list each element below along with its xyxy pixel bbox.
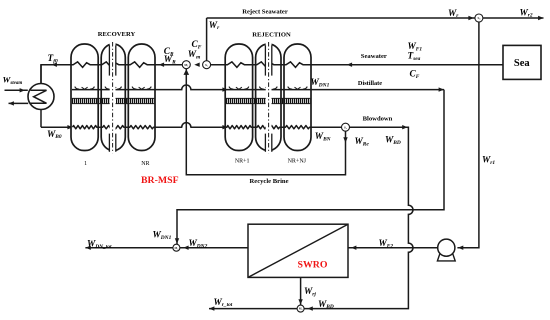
- svg-text:1: 1: [84, 161, 87, 167]
- tube bundle recovery: [72, 98, 155, 103]
- splitter S1: [203, 61, 211, 69]
- svg-text:S₂: S₂: [344, 125, 347, 129]
- splitter S2: [342, 123, 350, 131]
- svg-text:BR-MSF: BR-MSF: [141, 175, 179, 186]
- vessel break (omitted stages): [110, 42, 116, 154]
- arrow WR into recovery: [159, 63, 164, 67]
- svg-text:M₃: M₃: [299, 307, 303, 311]
- brine heater HX: [28, 84, 54, 110]
- wire distillate tray line: [72, 85, 444, 90]
- svg-text:Blowdown: Blowdown: [363, 116, 393, 123]
- arrow brine into rejection: [222, 125, 227, 129]
- wire WDN_tot out: [85, 247, 172, 249]
- svg-text:S₀: S₀: [477, 16, 480, 20]
- svg-text:Sea: Sea: [514, 58, 531, 69]
- arrow blowdown: [402, 125, 407, 129]
- svg-text:Distillate: Distillate: [358, 80, 382, 87]
- arrow WDN1 into M2: [175, 238, 179, 243]
- wire WB0 hot brine line: [41, 126, 73, 128]
- svg-text:Recycle Brine: Recycle Brine: [250, 178, 289, 185]
- wire Wr2 out: [483, 17, 544, 19]
- wire heater top stub: [40, 65, 42, 84]
- svg-text:M₂: M₂: [175, 246, 179, 250]
- mixer M1: [182, 61, 190, 69]
- SWRO diagonal: [248, 224, 348, 277]
- arrow WBD into M3: [307, 306, 312, 310]
- wire Wrj down: [300, 277, 302, 305]
- vessel stage NR+1: [225, 44, 252, 151]
- wire Wr1 from S0 down to pump: [457, 22, 479, 248]
- mixer M2: [173, 244, 180, 251]
- distillate trays: [75, 87, 79, 90]
- wire WF2 pump to SWRO: [348, 247, 438, 249]
- arrow WDN2 into M2: [183, 246, 188, 250]
- arrow into pump: [458, 246, 463, 250]
- svg-text:REJECTION: REJECTION: [252, 31, 291, 38]
- vessel stage 1: [71, 44, 98, 151]
- svg-text:RECOVERY: RECOVERY: [98, 31, 136, 38]
- wire blowdown line: [304, 127, 413, 308]
- splitter S0: [475, 14, 483, 22]
- tube bundle rejection: [226, 98, 310, 103]
- wire rejection seawater feed line: [211, 62, 503, 68]
- arrow distillate exit: [439, 87, 444, 91]
- wire S1 up to reject line: [206, 18, 208, 61]
- Sea box: [503, 45, 541, 79]
- arrow Wrj into M3: [298, 299, 302, 304]
- vessel stage NR: [128, 44, 155, 151]
- wire condensate outlet: [9, 102, 29, 104]
- vessel stage NR+NJ: [284, 44, 311, 151]
- vessel rejection middle (break): [256, 44, 281, 151]
- wire heater bottom stub: [40, 110, 42, 128]
- arrow recycle into M1: [184, 69, 190, 75]
- svg-text:S₁: S₁: [205, 63, 208, 67]
- vessel break (omitted stages): [266, 42, 272, 154]
- svg-text:NR+1: NR+1: [235, 159, 250, 165]
- wire recovery feed line (tubes): [71, 62, 182, 68]
- svg-text:NR+NJ: NR+NJ: [288, 159, 307, 165]
- svg-text:M₁: M₁: [184, 63, 188, 67]
- wire steam inlet: [5, 89, 28, 91]
- wire reject seawater top line: [207, 17, 475, 19]
- arrow WRe down: [343, 137, 347, 142]
- wire Tf0 line to heater: [41, 65, 72, 84]
- mixer M3: [297, 305, 304, 312]
- wire distillate down and across: [177, 90, 444, 245]
- svg-text:NR: NR: [141, 161, 149, 167]
- heater coil: [31, 90, 47, 103]
- vessel recovery middle (break): [101, 44, 125, 151]
- svg-text:Seawater: Seawater: [361, 53, 387, 60]
- arrow seawater into rejection: [347, 63, 352, 67]
- svg-text:SWRO: SWRO: [298, 260, 328, 271]
- wire WDN2 from SWRO: [180, 247, 248, 249]
- wire brine pool line recovery: [73, 123, 228, 129]
- svg-text:Reject Seawater: Reject Seawater: [242, 9, 288, 16]
- wire brine pool line rejection: [227, 126, 342, 129]
- arrow S1 to M1: [194, 63, 199, 67]
- wire recycle brine loop: [186, 69, 345, 175]
- wire Wr_tot out: [209, 308, 297, 310]
- SWRO unit: [248, 224, 348, 277]
- pump P1: [437, 254, 455, 261]
